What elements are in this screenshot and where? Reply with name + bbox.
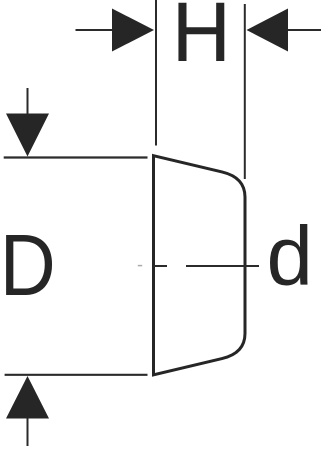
H arrow left tail	[76, 29, 114, 31]
d center mark faint	[138, 265, 142, 267]
D arrow down head	[6, 114, 49, 157]
svg-text:d: d	[267, 208, 313, 302]
D arrow down tail	[27, 88, 29, 114]
H arrow left head	[112, 9, 154, 52]
d tick at left edge	[154, 265, 167, 267]
H extension line left	[155, 0, 157, 146]
D arrow up tail	[27, 419, 29, 447]
svg-text:H: H	[172, 0, 231, 79]
svg-text:D: D	[0, 216, 56, 314]
D dimension line top	[4, 156, 148, 158]
H arrow right tail	[288, 29, 321, 31]
d dimension line	[186, 265, 259, 267]
D arrow up head	[6, 376, 49, 419]
H extension line right	[244, 4, 246, 179]
cap outline	[154, 156, 246, 375]
H arrow right head	[247, 9, 289, 52]
D dimension line bottom	[5, 374, 148, 376]
